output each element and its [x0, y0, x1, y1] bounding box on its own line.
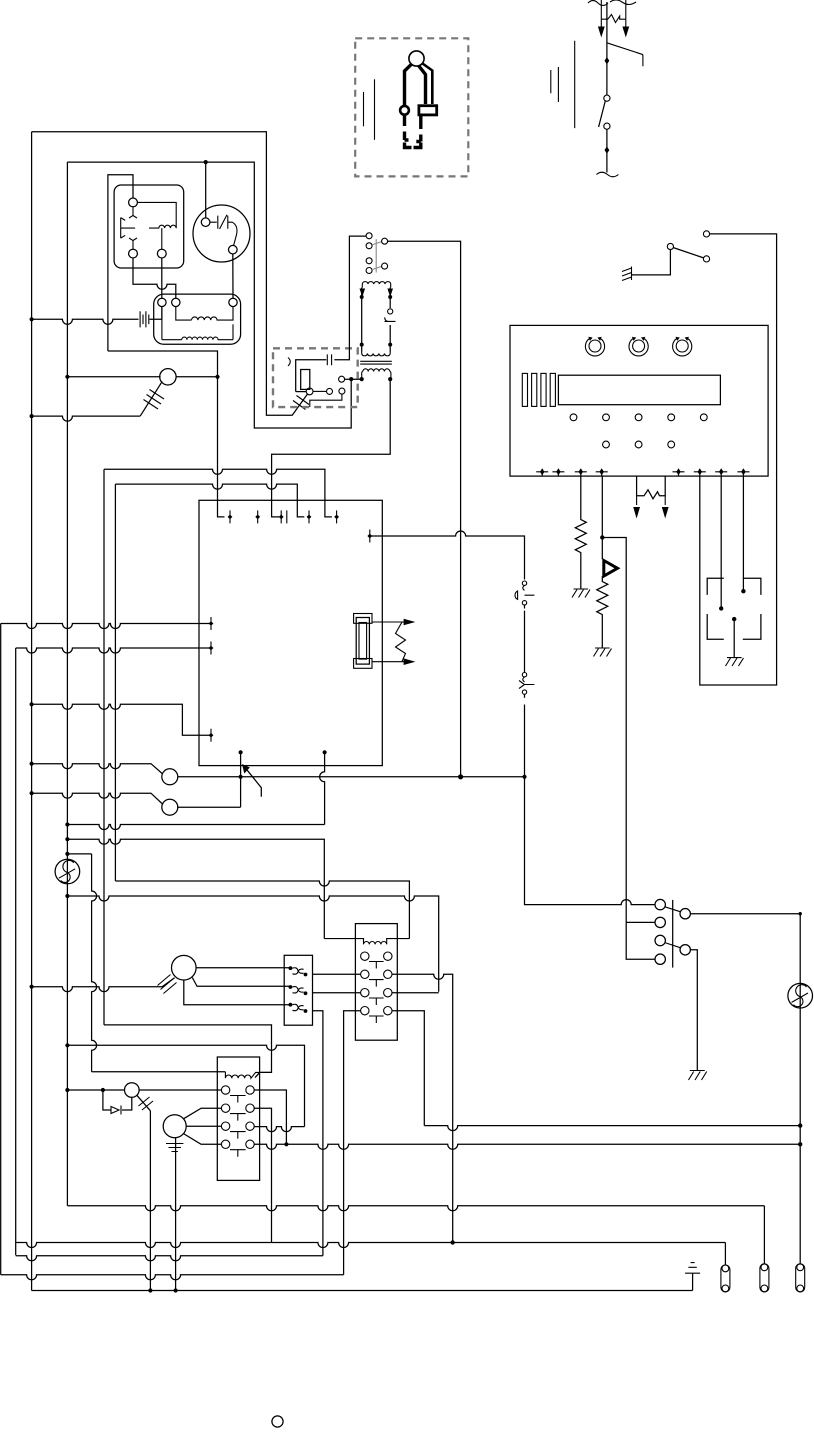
arrow down left	[600, 19, 602, 27]
vent bars	[522, 373, 527, 406]
capsule 1	[760, 1264, 769, 1292]
conn circle R2	[382, 263, 388, 269]
plug right lower dashes	[414, 116, 421, 148]
wire H881 y=881 from x=115.4 to x=409.4	[115, 881, 409, 939]
door lock wire x=743.4	[742, 476, 744, 591]
switch contact top	[604, 95, 610, 101]
resistor R2	[597, 576, 608, 648]
node dot H1045 at x=67.4	[65, 1043, 69, 1047]
terminal bar T-c at 281.2 plus mate bar	[279, 510, 287, 523]
lamp L3	[125, 1083, 140, 1098]
switch contact circle B pivot	[667, 243, 673, 249]
lamp L1 at (169.8,776.8)	[162, 769, 178, 785]
T2 row tie marks	[230, 1096, 246, 1157]
wire H824 y=824.5	[67, 825, 324, 830]
motor M1 circle with S mark at (67.4,871.5)	[55, 859, 80, 884]
switch S-ign slash marks on W1 blade	[293, 396, 309, 410]
knob 2	[629, 337, 648, 356]
switch blade open	[599, 101, 606, 127]
lone circle bottom	[272, 1416, 283, 1427]
conn circle L3	[366, 258, 372, 264]
node dot H824 at x=67.4	[65, 822, 69, 826]
relay K1 box	[114, 185, 184, 268]
transformer side right	[389, 288, 391, 352]
lock center dot	[732, 617, 736, 621]
spark module dashed box	[273, 348, 358, 407]
wire H986 selector feed y=986.7	[32, 978, 175, 992]
terminal bar H735	[209, 729, 214, 742]
protector terminal circle bottom right	[229, 245, 238, 254]
antenna mast lines	[551, 41, 575, 128]
plug mid lead (bold)	[419, 66, 426, 105]
terminal bar H623	[209, 617, 214, 630]
wire switch to right column	[700, 234, 777, 685]
relay terminal circle bottom B	[157, 249, 166, 258]
node dot W2 top at (205.7,162.1)	[204, 160, 208, 164]
wire V6 column x=104	[103, 469, 105, 1025]
node dot (800.2,1125.6)	[798, 1123, 802, 1127]
plug left lead (bold)	[405, 64, 412, 105]
node dot door switch at lamp1 wire	[239, 775, 243, 779]
wire lamp1 to right y=776.8	[178, 776, 525, 778]
electrode gap 2	[522, 673, 526, 677]
filter bars on H319	[140, 311, 149, 327]
capsule 3	[796, 1264, 805, 1292]
switch contact bottom	[604, 123, 610, 129]
primary arrow right	[387, 289, 393, 298]
wire H469 y=469.3	[104, 469, 332, 517]
wire circle4 to transformer node	[345, 378, 362, 380]
control panel box	[510, 325, 768, 476]
wire H1071 transformer T2 coil left feed y=1071.8	[92, 1071, 226, 1073]
bracket x=626.2 to circles 2 and 4	[626, 922, 655, 959]
knob 1	[585, 337, 604, 356]
node dot H763 at x=31.6	[30, 762, 34, 766]
wire lamp2 to right then up to door switch y=807.2	[177, 806, 241, 808]
relay coil	[149, 225, 176, 228]
node dot at (524.5,776.8)	[522, 775, 526, 779]
node dot H319 at x=31.6	[30, 317, 34, 321]
T1 coil1 (4 loops)	[192, 317, 227, 320]
ground G2	[594, 648, 612, 657]
conn bridge 1	[665, 907, 681, 912]
X contact row3	[289, 1003, 293, 1007]
flag branch	[607, 43, 643, 67]
wire V2 left bus x=15.7	[15, 648, 17, 1255]
wire H1125 y=1125.6	[424, 1126, 800, 1131]
wire V9 column x=150.4 lamp switch drop	[149, 1111, 151, 1291]
wire capsule1 drop from H1205	[763, 1206, 765, 1264]
capsule 2	[721, 1265, 730, 1292]
igniter arrow A	[636, 496, 638, 505]
wavy break top	[588, 0, 636, 6]
wire V3 main loop W1 left leg x=31.6	[31, 132, 33, 1291]
wire protector feed x=205.7	[205, 162, 207, 218]
T2 coil	[225, 1072, 271, 1078]
wire selector to X row1	[196, 967, 290, 969]
door lock wire x=721.2	[720, 476, 722, 608]
core lines	[360, 361, 392, 364]
plug head circle	[409, 51, 424, 66]
wire H1024 y=1024.9 from x=104 to corner down x=271.5	[104, 1025, 272, 1078]
index line long	[374, 79, 376, 140]
wire row3 right to x=438.7	[392, 992, 439, 994]
T-mid box	[355, 924, 397, 1041]
wire row4 left stub from corner x=343.6	[344, 1011, 361, 1275]
protector contact symbol	[210, 215, 237, 246]
thermal fuse loop	[103, 1090, 132, 1110]
conn bar	[672, 900, 674, 968]
T1 coil1 right lead up to circle3	[227, 307, 233, 321]
tie bar with zigzag	[601, 15, 626, 23]
wire capsule2 drop from H1242	[724, 1243, 726, 1266]
primary coil with arrows	[362, 282, 391, 288]
wire M2 to T2 row3	[186, 1125, 221, 1127]
protector circle	[193, 205, 250, 262]
ground G4	[689, 1071, 707, 1081]
node dot at (351.2,379.1)	[349, 377, 353, 381]
motor M1 S-curve	[59, 860, 75, 882]
wire protector bottom to T1 circle3	[232, 254, 234, 298]
wire H648 terminal feed y=648	[16, 648, 211, 653]
node small at corner (800.2,913.7)	[799, 912, 802, 915]
knob 3	[673, 337, 692, 356]
wire selector to X row3	[184, 980, 291, 1005]
wire M2 to T2 row2	[184, 1108, 222, 1119]
wire M2 to T2 row4	[184, 1134, 222, 1145]
wire conn R2 to ground drop x=697.3	[690, 950, 697, 1070]
lamp L3 switch blade with slashes	[137, 1095, 151, 1111]
dashed box outline	[355, 38, 468, 176]
wire relay A to T1 (jog right)	[133, 258, 176, 298]
wire V1 left bus x=0.7	[0, 624, 2, 1275]
node dot (67.4,1090)	[65, 1088, 69, 1092]
thermostat contact on right side	[388, 309, 393, 314]
relay wire top circle to coil	[137, 202, 176, 228]
conn bridge upper	[372, 242, 382, 245]
igniter module rect	[301, 370, 310, 390]
relay armature chevrons	[121, 218, 126, 239]
ground G1	[572, 589, 590, 598]
wire V4 loop W2 left leg x=67.4	[66, 162, 68, 1206]
wire conn R1 to right column x=800.2	[690, 914, 800, 1264]
spark arc symbol	[288, 358, 290, 367]
node dot (800.2,1144.3)	[798, 1142, 802, 1146]
wire H1045 y=1045.3 from dot x=67.4 to corner up x=304.5	[67, 1045, 304, 1126]
wire H623 terminal feed y=623.5	[1, 624, 211, 629]
wire H1205 long bottom wire y=1205.8	[67, 1206, 764, 1211]
node dot at (460.6,776.8)	[458, 774, 463, 779]
arrow down right	[625, 19, 627, 27]
T1 coil2	[182, 337, 233, 340]
wire H1242 long bottom wire y=1242.5	[16, 1243, 726, 1248]
wire H536 from bar through box edge to x=524.5	[370, 531, 525, 580]
wire H853 motor top feed y=853.9 corner down x=91.6	[67, 853, 91, 855]
plug left ring terminal	[400, 106, 409, 115]
wire H351 from x=107.9 to x=217.5	[108, 351, 225, 517]
main drop wire	[606, 2, 608, 95]
T1 inner wire circle2 down to coil1	[176, 307, 192, 321]
wire H484 y=484.1	[115, 484, 304, 517]
buzzer triangle	[604, 561, 618, 577]
igniter circle 4	[339, 376, 345, 382]
node dot secondary right	[388, 377, 392, 381]
wire R2/triangle drop x=602.3	[601, 476, 603, 559]
igniter circle 1	[306, 388, 313, 395]
conn bridge 2	[665, 943, 681, 948]
wire row4 left from X-block corner down x=322.9	[313, 1011, 323, 1256]
node dot at (217.5,376.8)	[215, 375, 219, 379]
wire H763 lamp1 feed y=763.7	[32, 764, 163, 774]
conn circle L1	[366, 233, 372, 239]
terminal bar T-e at 336.6	[334, 510, 339, 523]
relay coil lead down to circle B	[161, 228, 163, 249]
button row 2	[603, 441, 610, 448]
bottom edge tick terminals	[536, 468, 749, 476]
wire H376 lamp3 row y=376.8	[67, 376, 217, 378]
node dot H1290 at x=175.6	[174, 1288, 178, 1292]
T2 box	[217, 1057, 259, 1180]
node dot H853 at x=67.4	[65, 852, 69, 856]
T1 terminal circle 2	[172, 298, 180, 306]
T2 contact rows circles	[221, 1086, 254, 1149]
T1 coil2 (7 loops) left lead	[162, 339, 182, 341]
wire secondary right down and left to terminal drop	[272, 379, 391, 517]
ground G3	[726, 658, 744, 666]
node dot (721.2,608.4)	[719, 606, 723, 610]
door switch vertical from box terminal	[240, 752, 242, 807]
node dot secondary left	[360, 377, 364, 381]
wire V7 column x=115.4	[114, 484, 116, 881]
node dot (743.4,591.2)	[741, 589, 745, 593]
wire row2 left from X-block	[313, 973, 361, 975]
node dot H1290 at x=150.4	[148, 1288, 152, 1292]
node dot (102.9,1090)	[101, 1088, 105, 1092]
wire H1275 y=1274.8 from x=0.7 to corner up x=343.6	[1, 1275, 344, 1280]
terminal bar H648	[209, 642, 214, 655]
conn bridge lower	[372, 266, 382, 269]
node dot H896 at x=67.4	[65, 894, 69, 898]
node dot H376 at x=67.4	[65, 375, 69, 379]
wire T2 row4 right long wire y=1144.3	[254, 1144, 800, 1149]
node dot (286.4,1144.3)	[284, 1142, 288, 1146]
X contact row1	[289, 966, 293, 970]
S-lamp circle	[788, 983, 813, 1008]
secondary leads	[362, 372, 391, 380]
wire row4 right to x=424.3 down to long wire	[392, 1011, 424, 1126]
terminal bar T-d at 309	[307, 510, 312, 523]
wire V10 column x=175.6 motor drop	[175, 1137, 177, 1291]
relay armature bar	[121, 218, 135, 239]
wire T2 row2 right corner down to H1242	[254, 1108, 271, 1242]
capacitor bars	[327, 354, 331, 365]
selector circle	[172, 955, 197, 980]
earth ground at end of H1290	[692, 1273, 694, 1290]
plug left lower dashes	[405, 115, 412, 148]
slash marks on L0 blade	[144, 390, 165, 410]
bottom coil of box	[362, 352, 391, 356]
node dot big box terminal (324.6,752.3)	[323, 750, 327, 754]
igniter wire c1-c2	[313, 390, 326, 392]
bead on main drop	[605, 57, 610, 64]
T1 coil2 right lead up	[232, 324, 234, 339]
wire row3 left from X-block	[313, 992, 361, 994]
resistor R1 drop x=580.8	[575, 476, 586, 589]
element break zigzag	[396, 622, 406, 662]
igniter circle 3	[339, 388, 345, 394]
wire H1256 y=1255.8 from x=15.7 to corner up x=322.9	[16, 1256, 323, 1261]
node dot H416 at x=31.6	[30, 414, 34, 418]
transformer T1 box	[154, 294, 241, 344]
T-mid row tie marks	[369, 962, 384, 1024]
X-block rect	[284, 955, 312, 1025]
wire V8 column x=91.6 with hops over y=896,986.7,1045.3	[92, 854, 97, 1072]
conn bar gray	[375, 239, 377, 272]
node dot at (602.3,537.5)	[600, 535, 604, 539]
wire from dot down with hop over y=776.8 to wire H824	[320, 752, 325, 824]
node dot H839 at x=67.4	[65, 837, 69, 841]
node dot H793 at x=31.6	[30, 791, 34, 795]
wire H1290 ground bus y=1290.5	[32, 1290, 693, 1292]
relay terminal circle top	[129, 198, 138, 207]
wire H839 y=839.2 corner down at x=324.3	[67, 839, 324, 938]
conn circles right	[680, 909, 690, 919]
switch blade	[673, 248, 703, 258]
M2 chassis marks on drop	[166, 1144, 183, 1152]
wire H1090	[67, 1089, 221, 1091]
primary arrow left	[360, 289, 366, 298]
protector terminal circle left	[201, 218, 210, 227]
wire conn R1 to right column	[388, 241, 461, 777]
conn circles left column	[655, 899, 665, 909]
switch blade from lamp L0 with slashes	[140, 381, 162, 416]
selector blade slashes	[158, 975, 177, 994]
secondary coil	[363, 369, 390, 372]
igniter arrow B	[664, 496, 666, 505]
node dots primary	[360, 295, 364, 299]
conn circle L4	[366, 268, 372, 274]
wire H319 line input	[32, 307, 162, 325]
node dot H704 at x=31.6	[30, 702, 34, 706]
igniter circle 2	[327, 388, 333, 394]
relay contact from top circle	[129, 207, 137, 218]
chassis ground marks	[622, 267, 632, 281]
igniter pair drop	[637, 476, 666, 499]
conn circle R1	[382, 238, 388, 244]
T1 inner wire circle1 down to node	[161, 307, 163, 340]
relay contact to bottom circle	[129, 238, 137, 249]
wire H793 lamp2 feed y=793.2	[32, 793, 163, 804]
button row 1	[570, 414, 577, 421]
terminal bar T-a at 230	[228, 510, 233, 523]
wire T2 row1 right corner down to long wire	[254, 1090, 286, 1144]
index line short	[363, 92, 365, 126]
wire H416 y=416.1	[32, 416, 141, 421]
S-lamp S-curve	[792, 985, 808, 1007]
electrode column lower to connector	[525, 777, 656, 905]
node dot H986 at x=31.6	[30, 985, 34, 989]
terminal bar T-f right side at 369.8 y=536	[367, 530, 372, 543]
fuse diode symbol	[111, 1106, 121, 1115]
switch blade	[247, 770, 261, 797]
conn circle L2	[366, 243, 372, 249]
node dot H1242 at x=452.7	[451, 1240, 455, 1244]
switch contact circle C	[703, 256, 709, 262]
heater element nested rects on box right edge	[354, 614, 372, 624]
T-mid contact rows circles	[361, 952, 392, 1015]
terminal bar T-b lone at 257.7	[255, 510, 260, 523]
lamp L2 at (169.8,807.2)	[162, 799, 178, 815]
wavy break bottom	[596, 172, 618, 177]
wire W3 from x=107.9 to relay	[108, 175, 133, 351]
wire cap lead y=359.8	[296, 236, 367, 392]
big box outline	[199, 500, 382, 765]
plug rect terminal	[419, 106, 437, 115]
switch blade arrowhead	[242, 764, 250, 774]
display rectangle	[558, 375, 720, 405]
T1 terminal circle 3	[229, 298, 237, 306]
supply left stub	[601, 0, 626, 19]
lock ground stem	[733, 619, 735, 657]
wire H704 terminal feed y=704.3 with corner to y=735.2	[32, 704, 211, 735]
electrode gap 1	[522, 581, 526, 585]
wire T2 row3 right to corner up x=304.5	[254, 1127, 304, 1132]
switch contact circle A	[703, 231, 709, 237]
element arrows right	[372, 621, 404, 623]
node dot big box terminal (240.6,752.3)	[239, 750, 243, 754]
relay terminal circle bottom A	[129, 249, 138, 258]
wire row2 right to x=452.7	[392, 974, 453, 1242]
plug right lead (bold)	[423, 64, 433, 105]
wire into igniter circle1	[296, 391, 306, 393]
wire W1 top edge y=131.8	[32, 132, 308, 415]
wire selector to X row2	[192, 978, 290, 988]
lamp L0 at (167.9,376.8)	[160, 369, 176, 385]
X contact row2	[289, 985, 293, 989]
wire H538 dot to x=626.2	[602, 538, 626, 923]
lower stub with bead	[606, 129, 608, 172]
transformer side left	[361, 288, 363, 352]
wire relay B to T1 straight	[161, 258, 163, 298]
wire pivot to chassis ground	[632, 250, 671, 275]
T-mid coil row	[324, 939, 409, 945]
dashed bracket box (lock unit)	[707, 578, 761, 639]
wire W2 top edge y=162.1 and right leg	[67, 162, 351, 428]
igniter loop under	[310, 394, 342, 407]
T1 terminal circle 1	[158, 298, 166, 306]
motor M2 circle	[163, 1115, 186, 1138]
wire H896 y=896 from dot x=67.4 to corner x=438.7	[67, 896, 438, 992]
